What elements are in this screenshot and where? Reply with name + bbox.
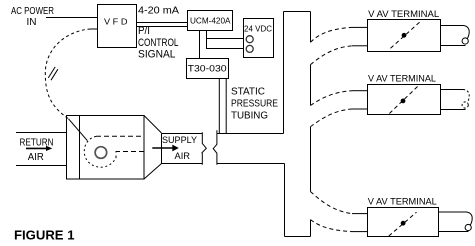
svg-text:AC POWER: AC POWER: [11, 6, 54, 17]
VAV terminal 3 outlet duct: [439, 211, 467, 213]
branch 1 upper curve: [311, 27, 353, 42]
branch 1 lower curve: [311, 46, 353, 65]
VAV terminal 3 box: [368, 208, 439, 237]
branch 3 upper curve: [311, 192, 353, 214]
VAV terminal 3 damper: [389, 212, 417, 236]
svg-text:V AV TERMINAL: V AV TERMINAL: [368, 9, 439, 19]
supply duct seg2 bottom: [217, 163, 285, 165]
24VDC terminal circle lower: [246, 45, 253, 52]
static pressure tube left: [218, 79, 220, 134]
trunk duct right edge seg2: [310, 65, 312, 106]
svg-text:4-20 mA: 4-20 mA: [138, 5, 179, 17]
duct break left jag: [202, 132, 206, 165]
svg-text:T30-030: T30-030: [188, 64, 227, 75]
svg-text:TUBING: TUBING: [231, 111, 268, 122]
transition joint: [161, 134, 163, 164]
fan scroll dotted arc: [84, 136, 116, 167]
hatch marks on motor wire: [48, 67, 55, 78]
fan partition: [79, 116, 81, 180]
supply air arrow: [152, 147, 173, 149]
static pressure tube right: [225, 79, 227, 134]
VAV terminal 1 box: [368, 20, 441, 52]
T30-030 box: [187, 59, 229, 79]
transition top: [144, 116, 162, 134]
supply duct seg2 top: [217, 133, 284, 135]
svg-text:SUPPLY: SUPPLY: [162, 135, 198, 146]
VAV terminal 1 damper pivot: [402, 33, 407, 38]
svg-text:V F D: V F D: [104, 17, 128, 27]
supply duct seg1 top: [162, 133, 203, 135]
return duct top line: [16, 132, 67, 134]
svg-text:STATIC: STATIC: [231, 87, 265, 98]
trunk duct left upper edge: [283, 12, 285, 134]
VAV terminal 2 box: [368, 85, 441, 115]
svg-text:CONTROL: CONTROL: [138, 37, 179, 49]
svg-text:P/I: P/I: [138, 25, 150, 37]
svg-text:V AV TERMINAL: V AV TERMINAL: [368, 196, 437, 206]
label SUPPLY AIR: [162, 135, 198, 162]
fan hub circle: [95, 147, 107, 159]
24VDC terminal circle upper: [246, 36, 253, 43]
svg-text:PRESSURE: PRESSURE: [231, 99, 278, 110]
trunk duct right edge seg4: [310, 220, 312, 237]
VAV terminal 2 damper pivot: [401, 99, 406, 104]
VAV terminal 1 duct break curl: [463, 26, 469, 39]
label RETURN AIR: [20, 138, 54, 164]
VAV terminal 2 duct break curl: [463, 90, 469, 103]
svg-text:IN: IN: [27, 17, 37, 28]
wire 4-20mA signal pair VFD to UCM: [137, 22, 188, 24]
wire to 24VDC lower terminal: [206, 48, 244, 50]
branch 3 lower curve: [311, 220, 353, 232]
wire AC power to VFD: [46, 17, 97, 19]
duct break right jag: [213, 130, 217, 165]
svg-text:AIR: AIR: [175, 151, 191, 162]
VAV terminal 3 duct break curl: [466, 212, 472, 225]
svg-text:V AV TERMINAL: V AV TERMINAL: [368, 74, 436, 84]
UCM-420A box: [188, 11, 233, 31]
motor wire dotted curve VFD to fan: [45, 29, 90, 119]
return air arrow: [26, 147, 47, 149]
VFD box: [98, 5, 137, 48]
trunk duct bottom edge: [285, 236, 311, 238]
wire UCM down to 24VDC junction: [206, 31, 208, 49]
svg-text:FIGURE 1: FIGURE 1: [14, 229, 75, 243]
VAV terminal 3 damper pivot: [401, 221, 406, 226]
label AC POWER IN: [11, 6, 54, 28]
VAV terminal 2 outlet duct: [441, 89, 464, 91]
svg-text:AIR: AIR: [28, 152, 44, 163]
trunk duct right edge seg3: [310, 127, 312, 192]
VAV terminal 2 damper: [389, 86, 418, 114]
return duct bottom line: [16, 165, 67, 167]
wire to 24VDC upper terminal: [207, 38, 244, 40]
trunk duct right edge seg1: [310, 12, 312, 43]
branch 2 lower curve: [311, 109, 353, 127]
VAV terminal 1 outlet duct: [441, 25, 464, 27]
fan box: [67, 116, 145, 180]
fan scroll top dashed line: [96, 135, 144, 137]
VAV terminal 1 damper: [391, 22, 421, 49]
svg-text:UCM-420A: UCM-420A: [190, 16, 231, 26]
label P/I CONTROL SIGNAL: [138, 25, 179, 60]
transition bottom: [144, 164, 162, 180]
trunk duct left lower edge: [284, 164, 286, 237]
branch 2 upper curve: [311, 91, 353, 106]
label STATIC PRESSURE TUBING: [231, 87, 278, 122]
wire UCM to T30: [199, 31, 201, 59]
svg-text:24 VDC: 24 VDC: [244, 23, 272, 33]
24 VDC box: [244, 19, 274, 58]
trunk duct top edge: [284, 11, 311, 13]
svg-text:SIGNAL: SIGNAL: [138, 49, 176, 61]
motor wire stub at VFD: [91, 28, 98, 30]
supply duct seg1 bottom: [162, 163, 203, 165]
fan scroll outlet dashed: [116, 152, 144, 159]
